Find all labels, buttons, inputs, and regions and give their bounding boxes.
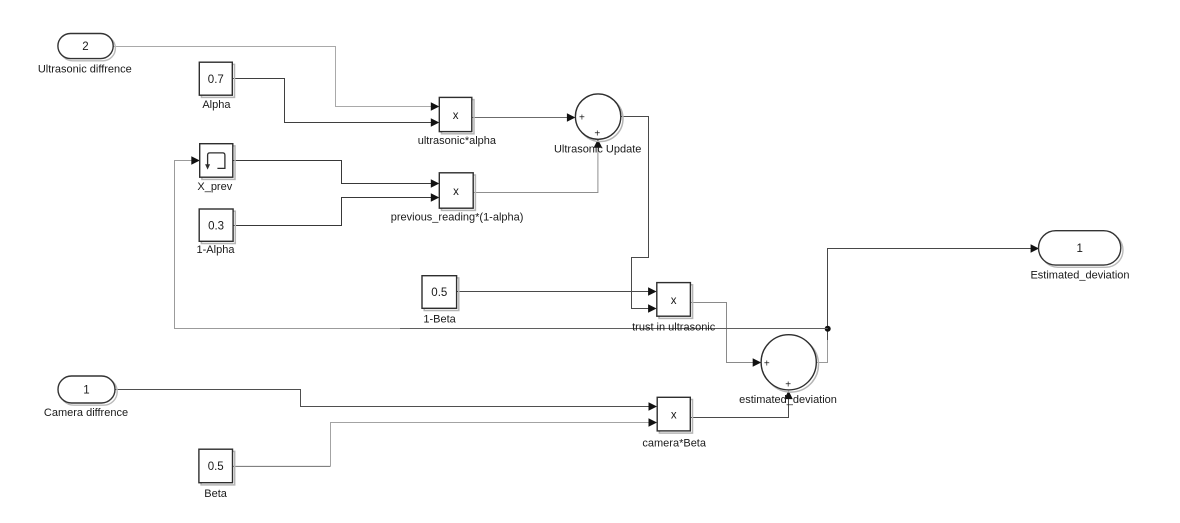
wire previous_reading*(1-alpha) -> Ultrasonic Update in2 [472, 139, 602, 192]
svg-text:Alpha: Alpha [202, 99, 231, 111]
svg-text:Ultrasonic diffrence: Ultrasonic diffrence [38, 64, 132, 76]
wire camera*Beta -> estimated_deviation in2 [690, 391, 792, 418]
sum Ultrasonic Update [575, 94, 623, 142]
svg-text:X_prev: X_prev [197, 181, 232, 193]
svg-text:Camera diffrence: Camera diffrence [44, 407, 128, 419]
product camera*Beta [657, 397, 692, 433]
inport 1 Camera diffrence [58, 376, 117, 405]
constant 0.7 Alpha [199, 62, 234, 97]
svg-text:x: x [453, 110, 459, 122]
svg-text:previous_reading*(1-alpha): previous_reading*(1-alpha) [391, 211, 524, 223]
svg-text:+: + [785, 380, 791, 391]
svg-text:estimated_deviation: estimated_deviation [739, 394, 837, 406]
svg-text:ultrasonic*alpha: ultrasonic*alpha [418, 135, 497, 147]
svg-text:0.3: 0.3 [208, 220, 224, 232]
svg-text:trust in ultrasonic: trust in ultrasonic [632, 321, 716, 333]
constant 0.5 Beta [199, 449, 235, 485]
wire 1-Beta -> trust in ultrasonic in1 [456, 287, 657, 295]
wire 2 -> ultrasonic*alpha in1 [113, 47, 439, 111]
wire 0.3 -> previous_reading*(1-alpha) in2 [233, 193, 439, 225]
wire ultrasonic*alpha -> Ultrasonic Update in1 [472, 113, 576, 121]
svg-text:1-Beta: 1-Beta [423, 314, 456, 326]
svg-text:1: 1 [1076, 243, 1082, 255]
inport 2 Ultrasonic diffrence [58, 34, 115, 61]
product trust in ultrasonic [657, 283, 693, 319]
svg-text:1: 1 [83, 385, 89, 397]
wire X_prev -> previous_reading*(1-alpha) in1 [233, 161, 439, 188]
sum estimated_deviation [761, 335, 818, 392]
wire feedback dot -> X_prev input [175, 156, 828, 328]
svg-text:x: x [671, 410, 677, 422]
wire estimated_deviation -> Estimated_deviation outport [816, 244, 1039, 362]
svg-text:Estimated_deviation: Estimated_deviation [1030, 269, 1129, 281]
svg-text:camera*Beta: camera*Beta [642, 437, 706, 449]
svg-text:+: + [594, 129, 600, 140]
outport 1 Estimated_deviation [1039, 231, 1124, 268]
wire Camera diffrence -> camera*Beta in1 [115, 390, 657, 411]
constant 0.3 1-Alpha [199, 209, 235, 244]
svg-text:x: x [453, 186, 459, 198]
svg-text:1-Alpha: 1-Alpha [197, 244, 236, 256]
product ultrasonic*alpha [439, 97, 474, 133]
svg-text:+: + [764, 358, 770, 369]
svg-text:Ultrasonic Update: Ultrasonic Update [554, 143, 641, 155]
wire trust in ultrasonic -> estimated_deviation in1 [690, 303, 761, 367]
constant 0.5 1-Beta [422, 276, 459, 311]
junction dot [825, 326, 831, 332]
svg-text:0.5: 0.5 [431, 287, 447, 299]
wire 0.7 -> ultrasonic*alpha in2 [233, 79, 440, 127]
svg-text:+: + [579, 113, 585, 124]
svg-text:0.5: 0.5 [208, 461, 224, 473]
svg-text:0.7: 0.7 [208, 74, 224, 86]
svg-text:Beta: Beta [204, 488, 228, 500]
svg-text:x: x [671, 295, 677, 307]
wire Beta -> camera*Beta in2 [233, 418, 657, 466]
product previous_reading*(1-alpha) [439, 173, 475, 211]
svg-text:2: 2 [82, 41, 88, 53]
wire Ultrasonic Update -> trust in ultrasonic in2 [621, 117, 657, 313]
unit delay X_prev [200, 144, 235, 180]
